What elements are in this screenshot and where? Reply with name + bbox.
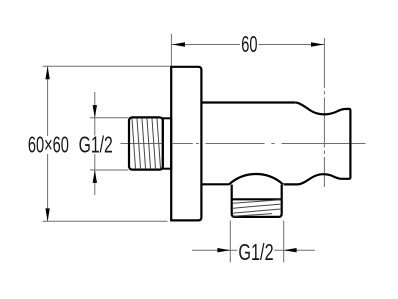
outlet thread helix lines xyxy=(233,200,280,217)
arrowhead 60x60 down xyxy=(45,208,49,221)
extension line G1/2 thread bottom xyxy=(90,169,128,171)
svg-text:G1/2: G1/2 xyxy=(238,241,273,266)
arrowhead bottom dim right-pointing xyxy=(217,248,230,252)
text halo 60x60 xyxy=(28,136,70,154)
body tube top edge xyxy=(201,101,295,103)
svg-text:60×60: 60×60 xyxy=(28,132,69,158)
arrowhead 60 right xyxy=(311,42,324,47)
arrowhead bottom dim left-pointing xyxy=(284,248,297,252)
body tube bottom edge left of outlet xyxy=(201,183,229,185)
extension line G1/2 thread top xyxy=(90,117,128,119)
dimension line G1/2 bottom xyxy=(192,249,315,251)
extension line left dim bottom xyxy=(43,220,168,222)
dimension line 60 top xyxy=(171,44,324,46)
centerline vertical holder axis xyxy=(323,38,325,187)
male thread cylinder G1/2 left xyxy=(129,117,163,169)
arrowhead G1/2 down xyxy=(93,105,97,118)
outlet dome xyxy=(229,174,283,184)
text halo G1/2 left xyxy=(79,136,113,155)
dimension line 60x60 left xyxy=(47,66,49,221)
arrowhead 60x60 up xyxy=(45,66,49,79)
extension line top left (flange face) xyxy=(170,34,172,66)
svg-text:60: 60 xyxy=(241,32,257,58)
text halo 60 xyxy=(240,36,259,53)
extension line bottom dim left xyxy=(229,221,231,263)
extension line left dim top xyxy=(43,65,171,67)
outlet thread start line xyxy=(232,198,282,200)
centerline horizontal axis xyxy=(121,143,366,145)
extension line bottom dim right xyxy=(283,221,285,263)
text halo G1/2 bottom xyxy=(237,242,274,262)
dimension leader G1/2 left xyxy=(94,92,96,195)
thread collar left xyxy=(163,118,171,168)
svg-text:G1/2: G1/2 xyxy=(79,132,113,158)
wall flange plate xyxy=(171,67,201,221)
arrowhead G1/2 up xyxy=(93,170,97,183)
holder head profile xyxy=(284,103,351,185)
outlet thread body xyxy=(232,185,282,217)
arrowhead 60 left xyxy=(172,42,185,47)
